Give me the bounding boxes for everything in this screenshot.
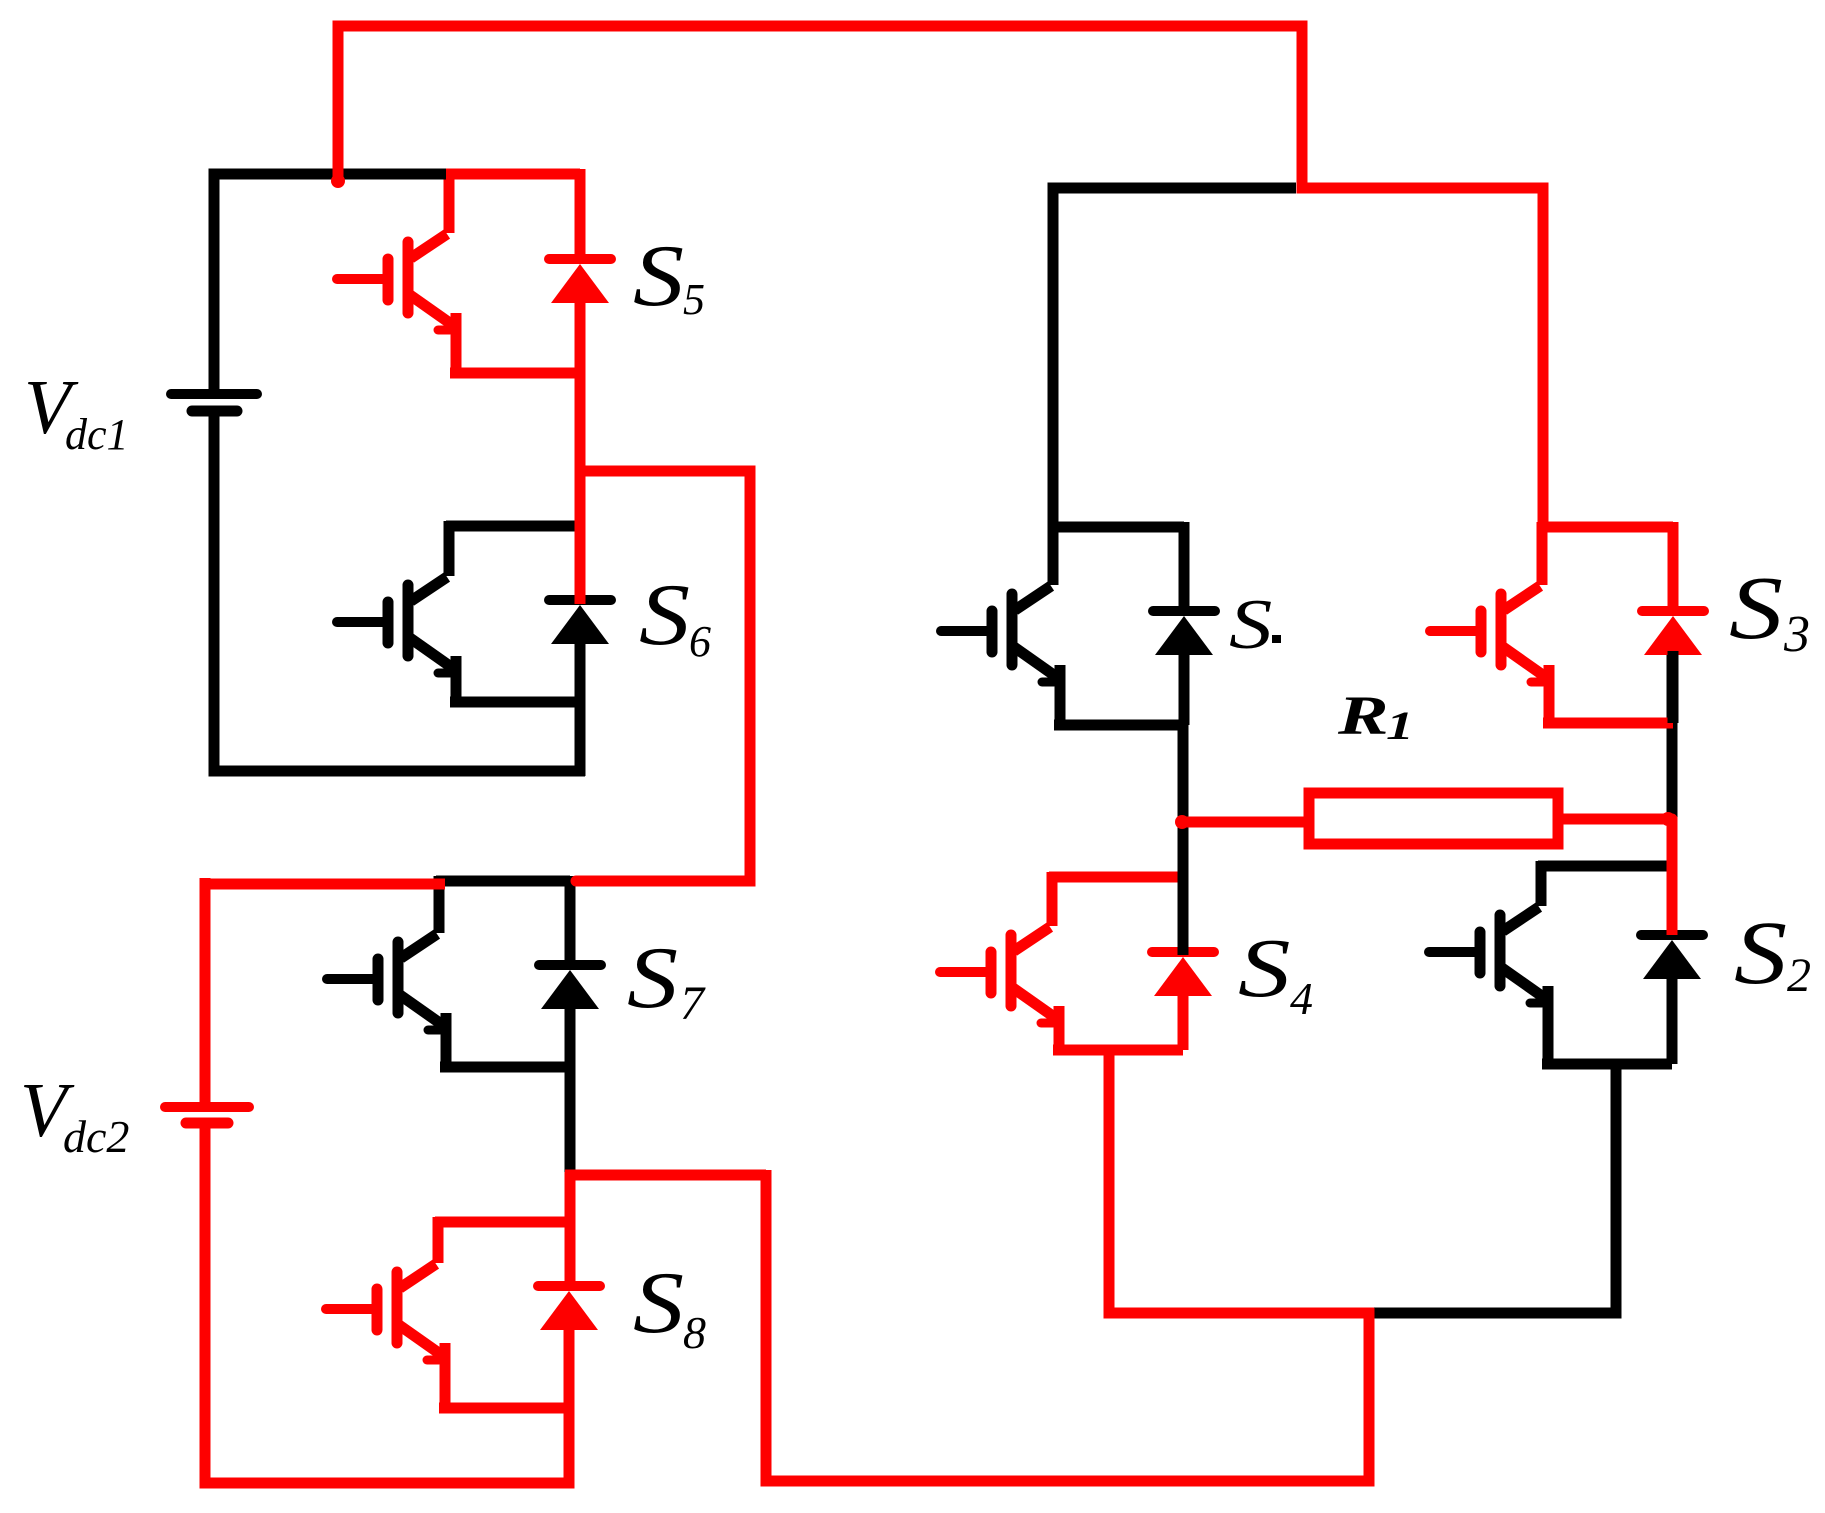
wire S3 diode to R1 right node (black vertical) [1667, 650, 1678, 822]
wire S5 emitter to S6 collector/diode [575, 370, 586, 604]
label S1 subscript remnant [1272, 635, 1281, 643]
wire mid node to bottom rail and H-bridge bottom [766, 1170, 1369, 1481]
junction dot R1 left node [1175, 815, 1189, 829]
wire S1 emitter to S4 diode through R1 left node [1178, 723, 1189, 955]
svg-text:dc1: dc1 [65, 410, 129, 459]
label R1 [1337, 686, 1389, 747]
label S6 [639, 566, 690, 664]
svg-text:S: S [1729, 557, 1783, 657]
wire S4 emitter down to bottom node [1109, 1045, 1374, 1313]
battery Vdc1 short plate [192, 406, 237, 417]
label S7 [627, 929, 678, 1027]
wire S7 mid node to S8 diode top [565, 1172, 576, 1286]
wire Vdc2 positive to S7 collector rail [205, 879, 445, 890]
label S3 [1729, 557, 1783, 657]
battery Vdc1 positive rail + top wire [214, 174, 446, 389]
svg-text:2: 2 [1787, 949, 1811, 1002]
svg-text:5: 5 [683, 275, 705, 324]
wire mid node horizontal branch [565, 1170, 766, 1181]
battery Vdc2 short plate [186, 1118, 228, 1129]
label S2 [1734, 903, 1787, 1003]
label S1 [1229, 585, 1272, 664]
transistor S5 IGBT with antiparallel diode [337, 169, 611, 373]
svg-text:S: S [1229, 585, 1272, 664]
svg-text:6: 6 [689, 617, 711, 666]
svg-text:dc2: dc2 [63, 1111, 129, 1162]
battery Vdc2 long plate [165, 1102, 249, 1112]
battery Vdc2 positive rail [200, 878, 211, 1103]
svg-text:3: 3 [1783, 606, 1810, 663]
svg-text:1: 1 [1386, 704, 1414, 748]
wire Vdc2 negative loop to S8 emitter/diode [205, 1120, 569, 1483]
wire S7 emitter to mid node [565, 1065, 576, 1172]
label S4 [1238, 921, 1291, 1015]
svg-text:S: S [627, 929, 678, 1027]
transistor S1 IGBT with antiparallel diode [941, 522, 1215, 725]
wire S5-S6 midpoint branch to S7 collector [576, 471, 750, 881]
wire main top red loop from Vdc1+ to S3 collector [338, 26, 1543, 532]
battery Vdc1 long plate [171, 389, 257, 399]
wire S2 emitter down + H-bridge bottom rail black [1374, 1062, 1616, 1313]
svg-text:S: S [633, 1254, 684, 1352]
svg-text:S: S [633, 227, 684, 325]
svg-text:8: 8 [683, 1307, 706, 1358]
wire R1 right node to S2 collector/diode [1667, 817, 1678, 935]
junction dot R1 right node [1661, 812, 1675, 826]
wire top-right rail black + S1 collector drop [1053, 188, 1296, 530]
resistor R1 left lead [1182, 817, 1304, 828]
transistor S3 IGBT with antiparallel diode [1430, 522, 1704, 723]
transistor S2 IGBT with antiparallel diode [1429, 861, 1703, 1064]
svg-text:7: 7 [680, 977, 706, 1030]
transistor S4 IGBT with antiparallel diode [940, 872, 1214, 1050]
svg-text:S: S [639, 566, 690, 664]
svg-text:S: S [1238, 921, 1291, 1015]
svg-text:R: R [1337, 686, 1389, 747]
svg-text:4: 4 [1290, 973, 1313, 1024]
wire S6 emitter down [575, 700, 586, 776]
transistor S8 IGBT with antiparallel diode [326, 1217, 600, 1408]
label S8 [633, 1254, 684, 1352]
transistor S6 IGBT with antiparallel diode [337, 521, 611, 702]
transistor S7 IGBT with antiparallel diode [327, 876, 601, 1067]
resistor R1 body [1309, 793, 1558, 844]
junction dot at Vdc1 top node [331, 174, 345, 188]
wire Vdc1 negative loop to S6 emitter [214, 408, 585, 771]
svg-text:S: S [1734, 903, 1787, 1003]
label S5 [633, 227, 684, 325]
resistor R1 right lead [1563, 814, 1672, 825]
